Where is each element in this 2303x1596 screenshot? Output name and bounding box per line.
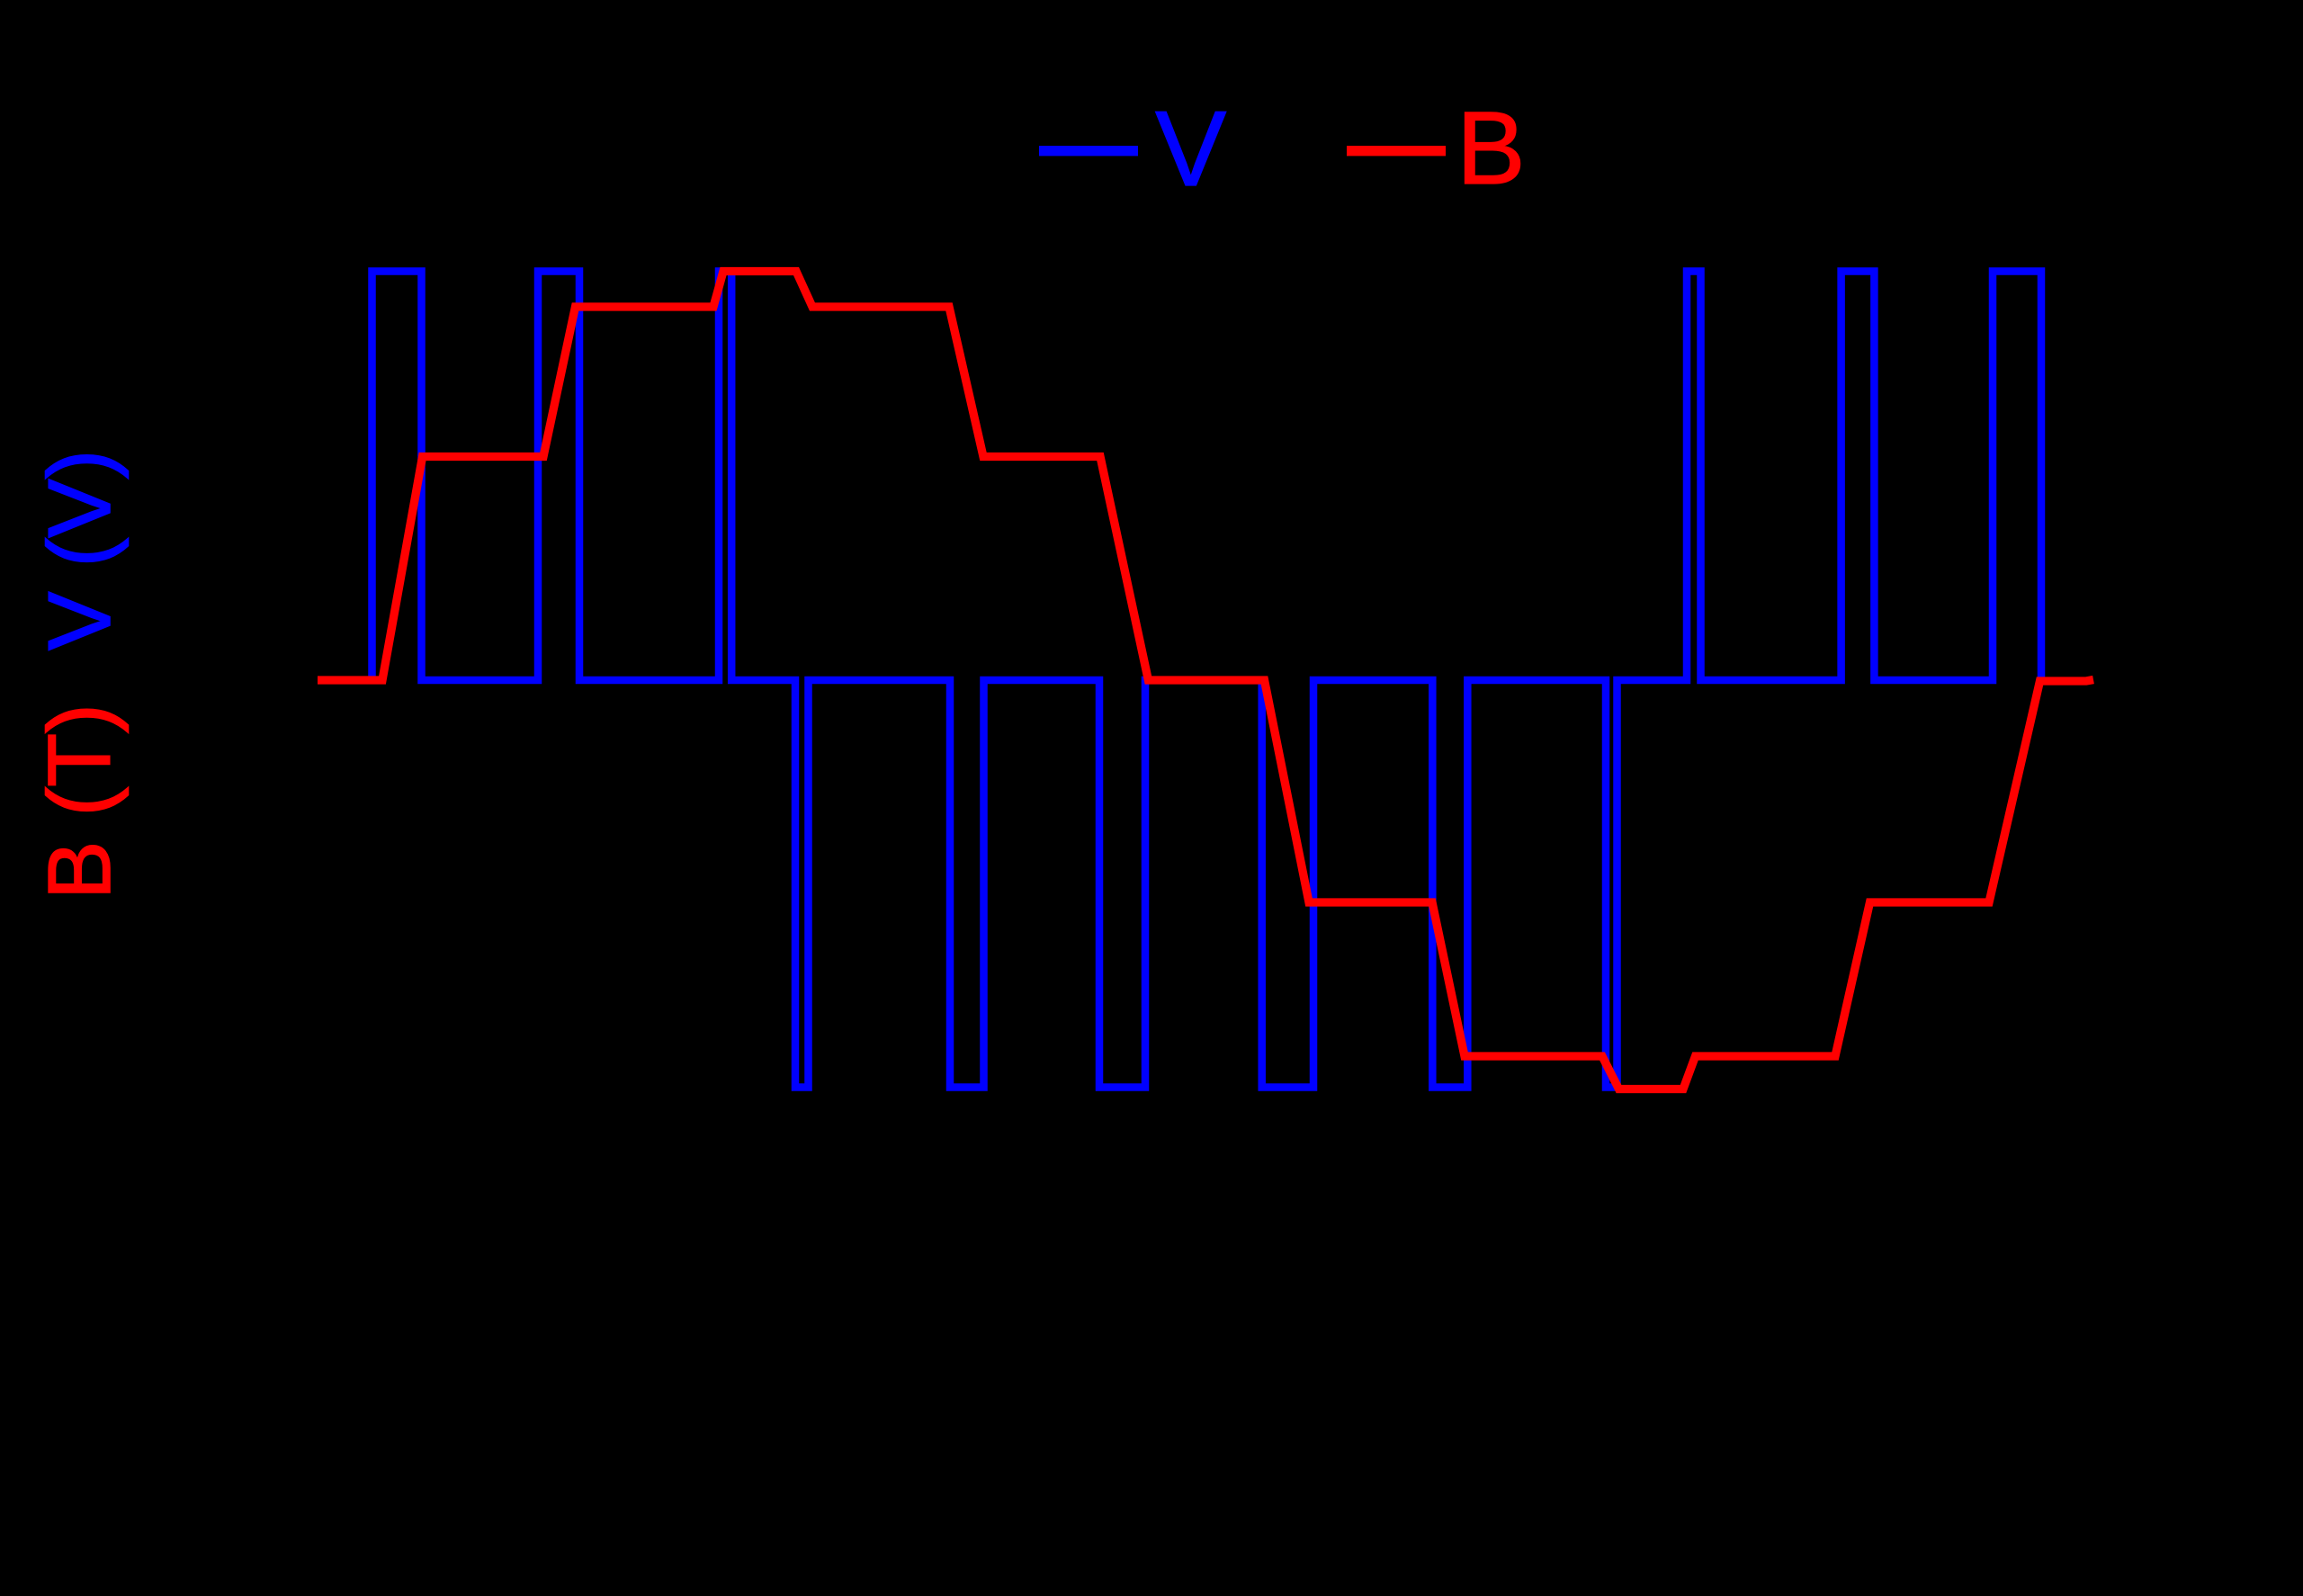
- curve B (red stepped line): [318, 272, 2093, 1089]
- curve V (blue square pulses): [319, 272, 2041, 1088]
- legend V handle: [1039, 146, 1138, 156]
- svg-text:V (V): V (V): [30, 450, 129, 650]
- svg-text:V: V: [1155, 89, 1226, 209]
- svg-text:B (T): B (T): [30, 704, 129, 900]
- legend B handle: [1347, 146, 1446, 156]
- svg-text:B: B: [1456, 91, 1526, 206]
